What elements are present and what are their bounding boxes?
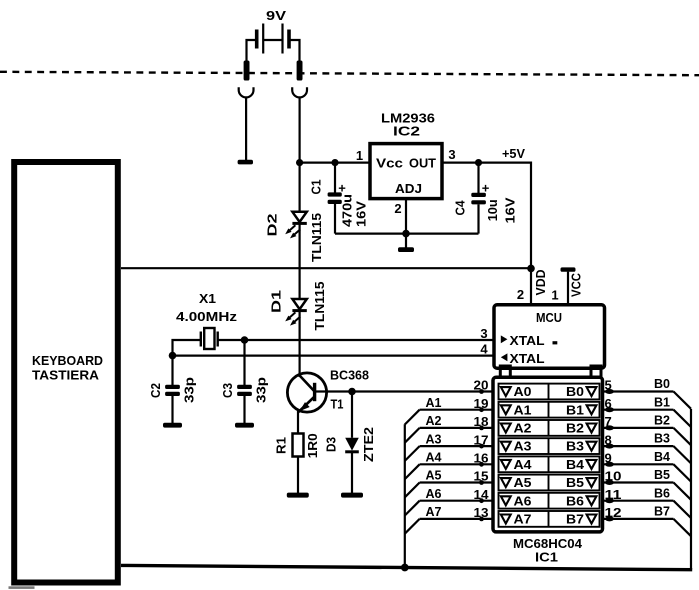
diode D3 ZTE2 bbox=[324, 427, 376, 462]
svg-text:B5: B5 bbox=[566, 475, 584, 490]
svg-text:2: 2 bbox=[517, 287, 524, 302]
IC1 pin 14 wire bbox=[420, 487, 493, 503]
svg-text:ZTE2: ZTE2 bbox=[361, 427, 376, 462]
svg-text:IC2: IC2 bbox=[393, 124, 420, 139]
svg-text:B3: B3 bbox=[566, 439, 584, 454]
svg-text:B2: B2 bbox=[566, 421, 584, 436]
IC1 pin 19 wire bbox=[420, 396, 493, 412]
svg-text:A7: A7 bbox=[514, 512, 532, 527]
wire T1 collector bbox=[315, 390, 352, 392]
svg-text:IC1: IC1 bbox=[535, 550, 558, 565]
svg-text:A4: A4 bbox=[426, 450, 443, 465]
capacitor C1 470u 16V bbox=[309, 163, 369, 234]
svg-text:B3: B3 bbox=[654, 431, 670, 446]
svg-text:B1: B1 bbox=[566, 402, 584, 417]
svg-text:R1: R1 bbox=[274, 437, 289, 454]
IC1 cell row A3/B3 bbox=[499, 438, 600, 454]
capacitor C4 10u 16V bbox=[453, 163, 518, 234]
node collector junction bbox=[348, 388, 356, 396]
svg-text:MCU: MCU bbox=[536, 310, 562, 325]
svg-text:B5: B5 bbox=[654, 467, 670, 482]
wire to IC2 pin 1 bbox=[300, 162, 370, 164]
svg-text:A6: A6 bbox=[514, 493, 532, 508]
IC1 cell row A1/B1 bbox=[499, 402, 600, 418]
regulator IC2 LM2936 bbox=[370, 111, 442, 199]
connector pin right bbox=[297, 61, 303, 81]
svg-text:ADJ: ADJ bbox=[395, 181, 422, 196]
svg-text:3: 3 bbox=[448, 147, 455, 162]
IC1 pin 10 wire bbox=[603, 469, 674, 485]
svg-text:VDD: VDD bbox=[533, 270, 548, 296]
MCU waist tab right bbox=[591, 366, 601, 378]
ground bar R1 bbox=[287, 493, 309, 498]
IC1 pin 11 wire bbox=[603, 487, 674, 503]
wire socket right stem bbox=[299, 97, 301, 211]
node A-bus junction bbox=[401, 564, 409, 572]
svg-text:BC368: BC368 bbox=[330, 367, 369, 382]
node XTAL3 junction bbox=[241, 336, 249, 344]
svg-text:B1: B1 bbox=[654, 394, 670, 409]
svg-text:KEYBOARD: KEYBOARD bbox=[32, 353, 103, 368]
wire bus tap A6 bbox=[405, 486, 442, 516]
svg-text:3: 3 bbox=[480, 326, 487, 341]
wire bus tap B2 bbox=[654, 413, 691, 446]
wire D3 top bbox=[351, 392, 353, 438]
node XTAL4 junction bbox=[169, 352, 177, 360]
wire D3 to ground bbox=[351, 452, 353, 493]
svg-text:A2: A2 bbox=[426, 413, 442, 428]
svg-text:X1: X1 bbox=[199, 291, 216, 306]
pin 3 label MCU bbox=[480, 326, 487, 341]
wire VDD pin 2 bbox=[530, 268, 532, 305]
pin 2 label IC2 bbox=[394, 201, 401, 216]
MCU waist tab left bbox=[500, 366, 510, 378]
wire A bus vertical bbox=[404, 424, 406, 567]
svg-text:2: 2 bbox=[394, 201, 401, 216]
ground bar battery return bbox=[238, 160, 253, 165]
svg-text:A1: A1 bbox=[514, 402, 532, 417]
svg-text:+: + bbox=[338, 181, 346, 196]
wire dashed mains separation line bbox=[0, 72, 699, 75]
wire bus tap A2 bbox=[405, 413, 442, 443]
svg-text:A4: A4 bbox=[514, 457, 533, 472]
svg-text:B4: B4 bbox=[566, 457, 585, 472]
wire bus tap A3 bbox=[405, 431, 442, 461]
capacitor C2 33p bbox=[148, 356, 197, 423]
wire crystal left to C2 node bbox=[173, 340, 201, 356]
svg-text:B7: B7 bbox=[654, 504, 670, 519]
svg-text:8: 8 bbox=[605, 432, 612, 447]
wire bus tap B3 bbox=[654, 431, 691, 464]
LED D1 TLN115 bbox=[269, 282, 328, 331]
keyboard block bbox=[14, 162, 118, 583]
wire keyboard to VDD rail bbox=[121, 267, 531, 269]
svg-text:D3: D3 bbox=[324, 437, 339, 452]
svg-text:16V: 16V bbox=[353, 201, 368, 227]
svg-text:33p: 33p bbox=[182, 377, 197, 403]
pin 4 label MCU bbox=[480, 341, 488, 356]
svg-text:TASTIERA: TASTIERA bbox=[32, 368, 100, 383]
svg-text:12: 12 bbox=[605, 505, 622, 520]
wire crystal right to node bbox=[218, 339, 245, 341]
svg-text:A6: A6 bbox=[426, 486, 442, 501]
ground bar C2 bbox=[163, 423, 182, 428]
svg-text:OUT: OUT bbox=[409, 156, 436, 171]
svg-text:A0: A0 bbox=[514, 384, 532, 399]
svg-text:+: + bbox=[482, 181, 490, 196]
wire bus tap B4 bbox=[654, 449, 691, 482]
svg-text:A5: A5 bbox=[426, 468, 442, 483]
node ADJ junction bbox=[402, 230, 410, 238]
svg-text:B6: B6 bbox=[566, 493, 584, 508]
MCU lower block IC1 bbox=[493, 377, 603, 564]
wire bus tap B5 bbox=[654, 467, 691, 500]
svg-text:14: 14 bbox=[474, 487, 490, 502]
wire socket left stem bbox=[245, 97, 247, 160]
svg-text:10: 10 bbox=[605, 469, 622, 484]
capacitor C3 33p bbox=[220, 340, 269, 423]
svg-text:C2: C2 bbox=[148, 383, 163, 398]
svg-text:C4: C4 bbox=[453, 200, 468, 216]
svg-text:C1: C1 bbox=[309, 180, 324, 195]
connector pin left bbox=[244, 61, 250, 81]
resistor R1 1R0 bbox=[274, 433, 320, 458]
IC1 pin 8 wire bbox=[603, 432, 674, 448]
svg-text:D2: D2 bbox=[265, 214, 280, 237]
svg-text:Vcc: Vcc bbox=[376, 156, 403, 171]
connector socket right bbox=[292, 87, 307, 97]
svg-text:XTAL: XTAL bbox=[510, 351, 545, 366]
svg-text:18: 18 bbox=[474, 414, 489, 429]
IC1 cell row A0/B0 bbox=[499, 384, 600, 400]
wire bus tap B0 bbox=[654, 376, 691, 409]
connector socket left bbox=[239, 87, 254, 97]
wire IC2 pin3 to +5V corner bbox=[442, 163, 531, 269]
MCU upper block bbox=[494, 305, 605, 368]
LED D2 TLN115 bbox=[265, 212, 324, 262]
wire bottom bus bbox=[121, 565, 692, 569]
svg-text:1: 1 bbox=[356, 148, 363, 163]
IC1 cell row A7/B7 bbox=[499, 511, 600, 527]
svg-text:B4: B4 bbox=[654, 449, 671, 464]
ground bar regulator bbox=[398, 247, 414, 252]
IC1 cell row A5/B5 bbox=[499, 475, 600, 491]
IC1 pin 7 wire bbox=[603, 414, 674, 430]
svg-text:B6: B6 bbox=[654, 485, 670, 500]
wire bus tap A1 bbox=[405, 395, 442, 425]
svg-text:D1: D1 bbox=[269, 290, 284, 313]
wire bus tap B6 bbox=[654, 485, 691, 518]
svg-text:+5V: +5V bbox=[502, 146, 525, 161]
crystal X1 4.00MHz bbox=[176, 291, 238, 349]
svg-text:A2: A2 bbox=[514, 421, 532, 436]
node VDD junction bbox=[527, 265, 535, 273]
svg-text:4.00MHz: 4.00MHz bbox=[176, 309, 238, 324]
IC1 pin 18 wire bbox=[420, 414, 493, 430]
svg-text:7: 7 bbox=[605, 414, 612, 429]
IC1 pin 17 wire bbox=[420, 432, 493, 448]
IC1 pin 16 wire bbox=[420, 451, 493, 467]
ground bar C3 bbox=[235, 423, 254, 428]
IC1 pin 20 wire bbox=[352, 378, 493, 394]
wire D2 to D1 bbox=[299, 223, 301, 299]
wire IC2 pin 2 stub bbox=[405, 199, 407, 248]
IC1 cell row A6/B6 bbox=[499, 493, 600, 509]
svg-text:16: 16 bbox=[474, 451, 489, 466]
svg-text:13: 13 bbox=[474, 505, 489, 520]
IC1 pin 12 wire bbox=[603, 505, 674, 521]
svg-text:A5: A5 bbox=[514, 475, 532, 490]
node supply input junction bbox=[296, 159, 303, 166]
svg-text:C3: C3 bbox=[220, 383, 235, 398]
wire T1 emitter to R1 bbox=[297, 411, 299, 434]
pin 1 label IC2 bbox=[356, 148, 363, 163]
svg-text:9: 9 bbox=[605, 451, 612, 466]
wire bus tap A7 bbox=[405, 504, 442, 534]
power terminal VCC bbox=[551, 267, 583, 305]
svg-text:4: 4 bbox=[480, 341, 488, 356]
wire bus tap A4 bbox=[405, 450, 442, 480]
IC1 pin 5 wire bbox=[603, 378, 674, 394]
svg-text:20: 20 bbox=[474, 378, 489, 393]
wire XTAL pin 4 bbox=[173, 355, 495, 357]
IC1 pin 9 wire bbox=[603, 451, 674, 467]
svg-text:A1: A1 bbox=[426, 395, 442, 410]
svg-text:TLN115: TLN115 bbox=[309, 213, 324, 262]
wire bus tap B7 bbox=[654, 504, 691, 537]
svg-text:11: 11 bbox=[605, 487, 622, 502]
IC1 pin 15 wire bbox=[420, 469, 493, 485]
svg-text:A3: A3 bbox=[426, 431, 442, 446]
battery 9V bbox=[247, 8, 300, 62]
wire XTAL pin 3 bbox=[245, 339, 495, 341]
svg-text:1: 1 bbox=[551, 288, 558, 303]
ground smudge artifact bbox=[9, 586, 35, 589]
wire R1 to ground bbox=[297, 457, 299, 494]
IC1 cell row A4/B4 bbox=[499, 456, 600, 472]
pin 2 VDD labels bbox=[517, 270, 548, 303]
node C4 tap bbox=[475, 159, 482, 166]
svg-text:33p: 33p bbox=[254, 377, 269, 403]
svg-text:1R0: 1R0 bbox=[305, 433, 320, 458]
svg-text:VCC: VCC bbox=[569, 272, 584, 297]
pin 3 label IC2 bbox=[448, 147, 455, 162]
wire D1 to T1 base bbox=[299, 311, 301, 377]
svg-text:6: 6 bbox=[605, 396, 612, 411]
svg-text:9V: 9V bbox=[266, 8, 286, 23]
svg-text:16V: 16V bbox=[502, 197, 517, 223]
svg-text:470u: 470u bbox=[339, 194, 354, 227]
node C1 tap bbox=[331, 159, 338, 166]
ground bar D3 bbox=[341, 493, 363, 498]
svg-text:A3: A3 bbox=[514, 439, 532, 454]
IC1 pin 6 wire bbox=[603, 396, 674, 412]
svg-text:B2: B2 bbox=[654, 413, 670, 428]
svg-text:T1: T1 bbox=[331, 396, 344, 411]
transistor T1 BC368 bbox=[287, 367, 369, 412]
wire bus tap B1 bbox=[654, 394, 691, 427]
wire ADJ ground rail bbox=[335, 233, 479, 235]
IC1 cell row A2/B2 bbox=[499, 420, 600, 436]
svg-text:15: 15 bbox=[474, 469, 489, 484]
svg-text:17: 17 bbox=[474, 432, 489, 447]
svg-text:B0: B0 bbox=[654, 376, 670, 391]
IC1 pin 13 wire bbox=[420, 505, 493, 521]
svg-text:B7: B7 bbox=[566, 512, 584, 527]
svg-text:A7: A7 bbox=[426, 504, 442, 519]
wire B bus vertical bbox=[690, 409, 692, 570]
svg-text:TLN115: TLN115 bbox=[312, 282, 327, 331]
svg-text:B0: B0 bbox=[566, 384, 584, 399]
svg-text:10u: 10u bbox=[485, 199, 500, 221]
svg-text:XTAL: XTAL bbox=[510, 333, 545, 348]
node +5V label bbox=[502, 146, 525, 161]
svg-text:5: 5 bbox=[605, 378, 612, 393]
svg-text:19: 19 bbox=[474, 396, 489, 411]
wire bus tap A5 bbox=[405, 468, 442, 498]
